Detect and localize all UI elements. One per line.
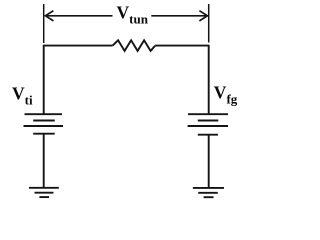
dimension arrow shaft left (Vtun measure)	[46, 15, 113, 17]
ground left bar 3	[39, 196, 49, 198]
arrowhead left	[45, 11, 53, 21]
battery Vfg plate long 1	[188, 113, 228, 115]
ground right bar 1	[193, 187, 224, 189]
wire left rail upper	[43, 45, 45, 115]
battery Vti plate long 1	[25, 113, 63, 115]
wire right rail lower	[208, 135, 210, 188]
dimension arrow shaft right	[151, 15, 207, 17]
svg-text:Vtun: Vtun	[117, 3, 149, 27]
ground right bar 3	[204, 196, 214, 198]
battery Vfg plate short 2	[198, 134, 218, 136]
ground right bar 2	[198, 192, 218, 194]
battery Vti plate short 2	[33, 133, 55, 135]
wire top-right segment	[155, 45, 209, 47]
wire right rail upper	[208, 45, 210, 115]
battery Vti plate short 1	[33, 120, 55, 122]
ground left bar 2	[35, 192, 54, 194]
ground left bar 1	[29, 187, 59, 189]
svg-text:Vfg: Vfg	[214, 83, 238, 107]
battery Vfg plate long 2	[188, 125, 228, 127]
svg-text:Vti: Vti	[12, 84, 33, 108]
dimension extension line right	[208, 4, 210, 43]
resistor (tunneling junction)	[113, 40, 156, 51]
battery Vfg plate short 1	[198, 120, 219, 122]
arrowhead right	[199, 11, 207, 21]
battery Vti plate long 2	[24, 125, 64, 127]
wire left rail lower	[43, 134, 45, 188]
dimension extension line left	[43, 4, 45, 43]
wire top-left segment	[44, 45, 113, 47]
